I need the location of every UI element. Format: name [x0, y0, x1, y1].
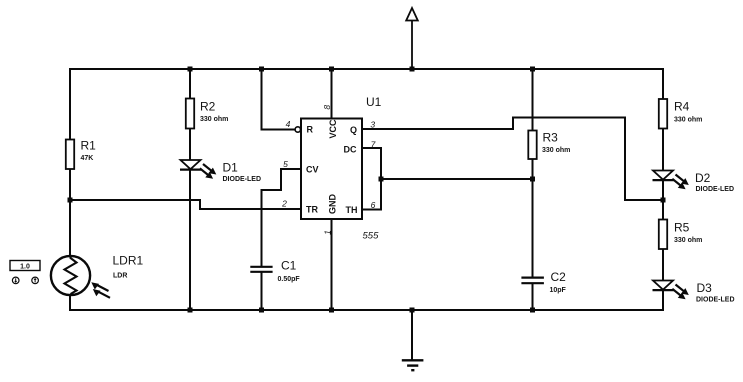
- svg-text:330 ohm: 330 ohm: [674, 117, 702, 124]
- svg-text:U1: U1: [366, 95, 382, 109]
- svg-text:DIODE-LED: DIODE-LED: [223, 176, 262, 183]
- svg-text:DIODE-LED: DIODE-LED: [696, 297, 735, 304]
- wire left rail LDR to bottom rail: [69, 294, 71, 311]
- svg-text:3: 3: [370, 120, 375, 130]
- resistor R3: [528, 131, 570, 160]
- svg-text:GND: GND: [328, 194, 338, 215]
- svg-text:R1: R1: [81, 139, 97, 153]
- svg-text:CV: CV: [306, 165, 319, 175]
- svg-text:DC: DC: [344, 145, 357, 155]
- resistor R4: [659, 99, 703, 129]
- wire left rail upper (VCC to R1): [69, 68, 71, 140]
- svg-text:330 ohm: 330 ohm: [542, 147, 570, 154]
- svg-text:6: 6: [371, 200, 376, 210]
- svg-text:1: 1: [323, 230, 333, 235]
- junction dot top rail power: [410, 67, 415, 72]
- wire C1 to bottom rail: [261, 272, 263, 310]
- wire R3 top from rail: [532, 69, 534, 131]
- junction dot bottom rail GND pin: [329, 308, 334, 313]
- svg-text:8: 8: [322, 105, 332, 110]
- wire D3 cathode to bottom rail: [662, 289, 664, 311]
- junction dot R3 bottom: [530, 177, 535, 182]
- svg-text:7: 7: [371, 140, 376, 150]
- svg-text:TH: TH: [346, 205, 358, 215]
- svg-text:D1: D1: [223, 161, 239, 175]
- svg-text:330 ohm: 330 ohm: [674, 237, 702, 244]
- capacitor C1: [250, 259, 300, 284]
- junction dot bottom rail ground: [410, 308, 415, 313]
- svg-text:R4: R4: [674, 100, 690, 114]
- wire R2 to D1: [189, 128, 191, 160]
- svg-text:R5: R5: [674, 221, 690, 235]
- svg-text:5: 5: [283, 159, 288, 169]
- svg-text:LDR: LDR: [113, 273, 127, 280]
- wire C2 to bottom rail: [532, 284, 534, 311]
- wire R3 junction to C2: [532, 179, 534, 277]
- svg-text:Q: Q: [350, 125, 357, 135]
- svg-text:10pF: 10pF: [550, 287, 567, 294]
- resistor R2: [186, 99, 229, 129]
- junction dot D2 cathode / Q: [661, 198, 666, 203]
- wire node A to TR horizontal: [70, 200, 301, 209]
- svg-text:4: 4: [286, 119, 291, 129]
- wire DC pin 7 to TH pin 6: [362, 148, 381, 210]
- wire R2 column top: [189, 69, 191, 99]
- svg-text:R3: R3: [543, 131, 559, 145]
- svg-text:D2: D2: [695, 171, 711, 185]
- svg-text:VCC: VCC: [328, 119, 338, 139]
- svg-text:2: 2: [281, 199, 287, 209]
- svg-text:0.50pF: 0.50pF: [278, 276, 301, 283]
- wire D1 cathode to bottom rail: [189, 169, 191, 310]
- pin bubble R input: [295, 127, 300, 132]
- LED D1: [180, 160, 261, 183]
- svg-text:C1: C1: [281, 259, 297, 273]
- resistor R1: [66, 139, 96, 170]
- LDR value display box 1.0: [10, 261, 40, 271]
- svg-text:DIODE-LED: DIODE-LED: [696, 186, 735, 193]
- junction dot bottom rail D1: [188, 308, 193, 313]
- capacitor C2: [521, 270, 566, 294]
- svg-text:TR: TR: [306, 205, 318, 215]
- junction dot DC/TH: [379, 177, 384, 182]
- LDR1: [51, 254, 144, 298]
- junction dot node A left rail: [68, 198, 73, 203]
- junction dot top rail pin4: [259, 67, 264, 72]
- LDR up button: [32, 277, 39, 284]
- wire C1 column: [261, 209, 263, 266]
- wire top rail: [69, 68, 663, 70]
- svg-text:D3: D3: [697, 281, 713, 295]
- wire top rail corner to R4: [662, 68, 664, 99]
- LED D3: [653, 281, 735, 304]
- junction dot bottom rail C2: [530, 308, 535, 313]
- resistor R5: [659, 220, 703, 250]
- svg-text:330 ohm: 330 ohm: [200, 116, 228, 123]
- wire VCC pin 8: [331, 69, 333, 119]
- wire DC/TH junction to R3 bottom: [381, 178, 533, 180]
- wire Q pin 3 to LED junction: [362, 118, 663, 201]
- svg-text:47K: 47K: [81, 155, 94, 162]
- svg-text:LDR1: LDR1: [113, 254, 144, 268]
- wire bottom rail: [69, 309, 663, 311]
- svg-text:555: 555: [363, 231, 380, 242]
- junction dot top rail R2: [188, 67, 193, 72]
- LED D2: [653, 171, 735, 194]
- svg-text:R: R: [307, 125, 314, 135]
- wire D2 cathode to R5: [662, 179, 664, 220]
- svg-text:C2: C2: [551, 270, 567, 284]
- wire R pin 4 from top rail: [262, 69, 295, 130]
- op-amp U1 555 timer body: [301, 95, 382, 242]
- wire GND pin 1: [331, 219, 333, 310]
- svg-text:R2: R2: [200, 100, 216, 114]
- wire CV pin step: [262, 169, 302, 209]
- junction dot top rail VCC: [329, 67, 334, 72]
- wire R3 bottom to junction: [532, 158, 534, 179]
- wire left rail R1 to node A: [69, 168, 71, 256]
- LDR down button: [12, 277, 19, 284]
- ground: [402, 310, 424, 370]
- svg-text:1.0: 1.0: [20, 264, 30, 271]
- power supply arrow: [406, 8, 418, 69]
- wire R5 to D3: [662, 249, 664, 281]
- wire R4 to D2: [662, 128, 664, 171]
- junction dot top rail R3: [530, 67, 535, 72]
- junction dot bottom rail C1: [259, 308, 264, 313]
